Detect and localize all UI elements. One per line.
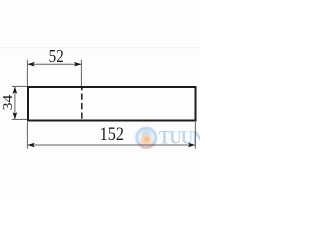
arrow right (52): [74, 62, 81, 67]
extension line top (34 dim): [12, 85, 27, 87]
arrow down (34): [13, 112, 18, 119]
svg-text:52: 52: [49, 45, 64, 66]
extension line bottom (34 dim): [12, 118, 27, 120]
extension line left (152 dim): [26, 122, 28, 149]
dimension line 34: [14, 87, 16, 120]
extension line right (152 dim): [194, 122, 196, 149]
extension line right (52 dim): [80, 60, 82, 86]
dimension line 52: [27, 63, 81, 65]
svg-text:34: 34: [1, 94, 16, 110]
extension line left (52 dim): [26, 60, 28, 86]
rectangle body outline: [28, 87, 196, 121]
arrow left (152): [28, 143, 35, 148]
arrow left (52): [28, 62, 35, 67]
dashed line: [81, 87, 83, 120]
svg-text:152: 152: [100, 123, 124, 144]
arrow up (34): [13, 87, 18, 94]
dimension line 152: [27, 144, 195, 146]
arrow right (152): [188, 143, 195, 148]
faint horizontal rule: [0, 47, 200, 48]
